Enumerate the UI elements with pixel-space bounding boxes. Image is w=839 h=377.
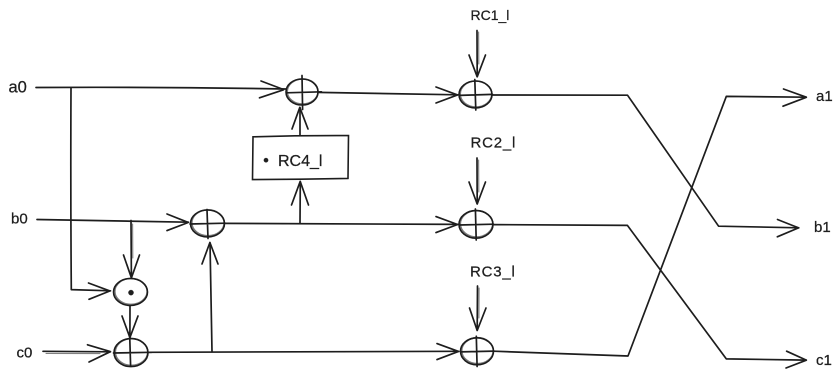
xor gate X1	[286, 76, 322, 110]
svg-text:RC4_l: RC4_l	[278, 153, 322, 170]
wire c branch up to X3	[202, 243, 218, 352]
node c1	[816, 352, 832, 369]
node b1	[814, 219, 831, 236]
box RC4_l	[253, 136, 349, 180]
svg-text:b0: b0	[11, 211, 28, 228]
node a0	[9, 79, 27, 97]
node a1	[816, 88, 833, 105]
wire RC1_l to X2	[469, 31, 486, 77]
wire RC3_l to X6	[470, 286, 487, 331]
svg-text:RC3_l: RC3_l	[470, 264, 516, 281]
wire X3 to xor X4	[225, 217, 459, 233]
wire b0 branch to multiplier M1	[124, 221, 140, 278]
wire c0 to xor X5	[43, 345, 111, 362]
wire X2 to output b1	[492, 95, 799, 237]
wire b0 to xor X3	[37, 214, 189, 231]
svg-text:a0: a0	[9, 79, 27, 97]
node RC2_l	[471, 134, 517, 151]
svg-text:a1: a1	[816, 88, 833, 105]
wire X6 to output a1	[494, 89, 807, 356]
wire RC4 to X1	[292, 107, 308, 134]
svg-text:RC2_l: RC2_l	[471, 134, 517, 151]
multiplier M1	[114, 278, 148, 305]
svg-text:RC1_l: RC1_l	[471, 7, 510, 23]
wire a0 to xor X1	[36, 81, 286, 98]
svg-text:c0: c0	[17, 344, 33, 361]
wire X4 to output c1	[493, 225, 806, 368]
wire X1 to xor X2	[318, 87, 458, 103]
xor gate X2	[459, 80, 493, 111]
wire M1 to xor X5	[122, 306, 138, 338]
xor gate X6	[461, 336, 495, 366]
svg-text:c1: c1	[816, 352, 832, 369]
wire a0 branch to multiplier M1	[71, 88, 111, 299]
wire X5 to xor X6	[148, 344, 459, 360]
wire RC2_l to X4	[469, 158, 486, 204]
node b0	[11, 211, 28, 228]
node c0	[17, 344, 33, 361]
node RC1_l	[471, 7, 510, 23]
xor gate X3	[190, 210, 226, 239]
xor gate X5	[114, 333, 152, 367]
node RC3_l	[470, 264, 516, 281]
svg-text:b1: b1	[814, 219, 831, 236]
xor gate X4	[459, 209, 494, 240]
wire b branch up to box RC4	[292, 181, 309, 223]
